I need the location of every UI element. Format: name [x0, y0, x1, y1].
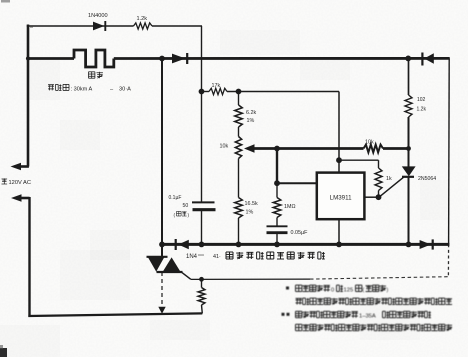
svg-text:°°°: °°°: [198, 254, 204, 260]
svg-text:): ): [387, 287, 389, 293]
svg-text:: 30km A: : 30km A: [71, 86, 93, 92]
svg-text:1N4000: 1N4000: [88, 13, 108, 19]
svg-text:41·: 41·: [213, 254, 221, 260]
svg-text:1.2k: 1.2k: [137, 16, 148, 22]
svg-text:102: 102: [417, 97, 426, 103]
svg-text:120V AC: 120V AC: [9, 180, 31, 186]
svg-text:50: 50: [183, 203, 189, 209]
svg-text:0.1µF: 0.1µF: [169, 195, 182, 201]
svg-text:16.5k: 16.5k: [245, 201, 258, 207]
svg-text:17k: 17k: [212, 83, 221, 89]
svg-text:30·A: 30·A: [119, 86, 131, 92]
svg-text:1%: 1%: [246, 210, 254, 216]
svg-text:0.05µF: 0.05µF: [291, 230, 309, 236]
svg-text:1MΩ: 1MΩ: [284, 204, 296, 210]
svg-text:0: 0: [331, 287, 334, 293]
svg-text:6.2k: 6.2k: [246, 110, 256, 116]
svg-text:1k: 1k: [386, 176, 392, 182]
svg-text:125: 125: [344, 287, 354, 293]
svg-text:LM3911: LM3911: [330, 195, 352, 202]
svg-text:10k: 10k: [220, 144, 229, 150]
svg-text:(: (: [363, 287, 365, 293]
svg-text:1%: 1%: [247, 118, 255, 124]
svg-text:10k: 10k: [365, 140, 374, 146]
svg-text:1N4: 1N4: [186, 254, 198, 260]
svg-text:1.2k: 1.2k: [417, 107, 427, 113]
